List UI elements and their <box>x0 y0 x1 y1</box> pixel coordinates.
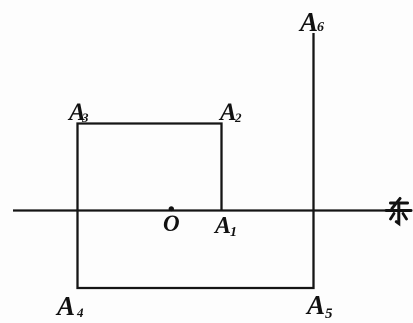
svg-text:2: 2 <box>234 110 242 125</box>
svg-text:5: 5 <box>325 306 333 322</box>
svg-text:A: A <box>298 7 318 37</box>
svg-text:A: A <box>218 99 237 126</box>
svg-text:6: 6 <box>317 20 324 35</box>
svg-text:4: 4 <box>76 305 84 320</box>
point O dot <box>169 206 174 211</box>
spiral path A1-A2-A3-A4-A5-A6 <box>78 33 314 288</box>
east axis <box>13 209 385 211</box>
character 东 (east) <box>386 199 411 224</box>
svg-text:O: O <box>163 211 180 236</box>
svg-text:A: A <box>213 213 231 239</box>
svg-text:A: A <box>55 291 75 321</box>
svg-text:3: 3 <box>81 110 89 125</box>
svg-text:A: A <box>305 290 325 320</box>
svg-text:1: 1 <box>230 225 237 240</box>
